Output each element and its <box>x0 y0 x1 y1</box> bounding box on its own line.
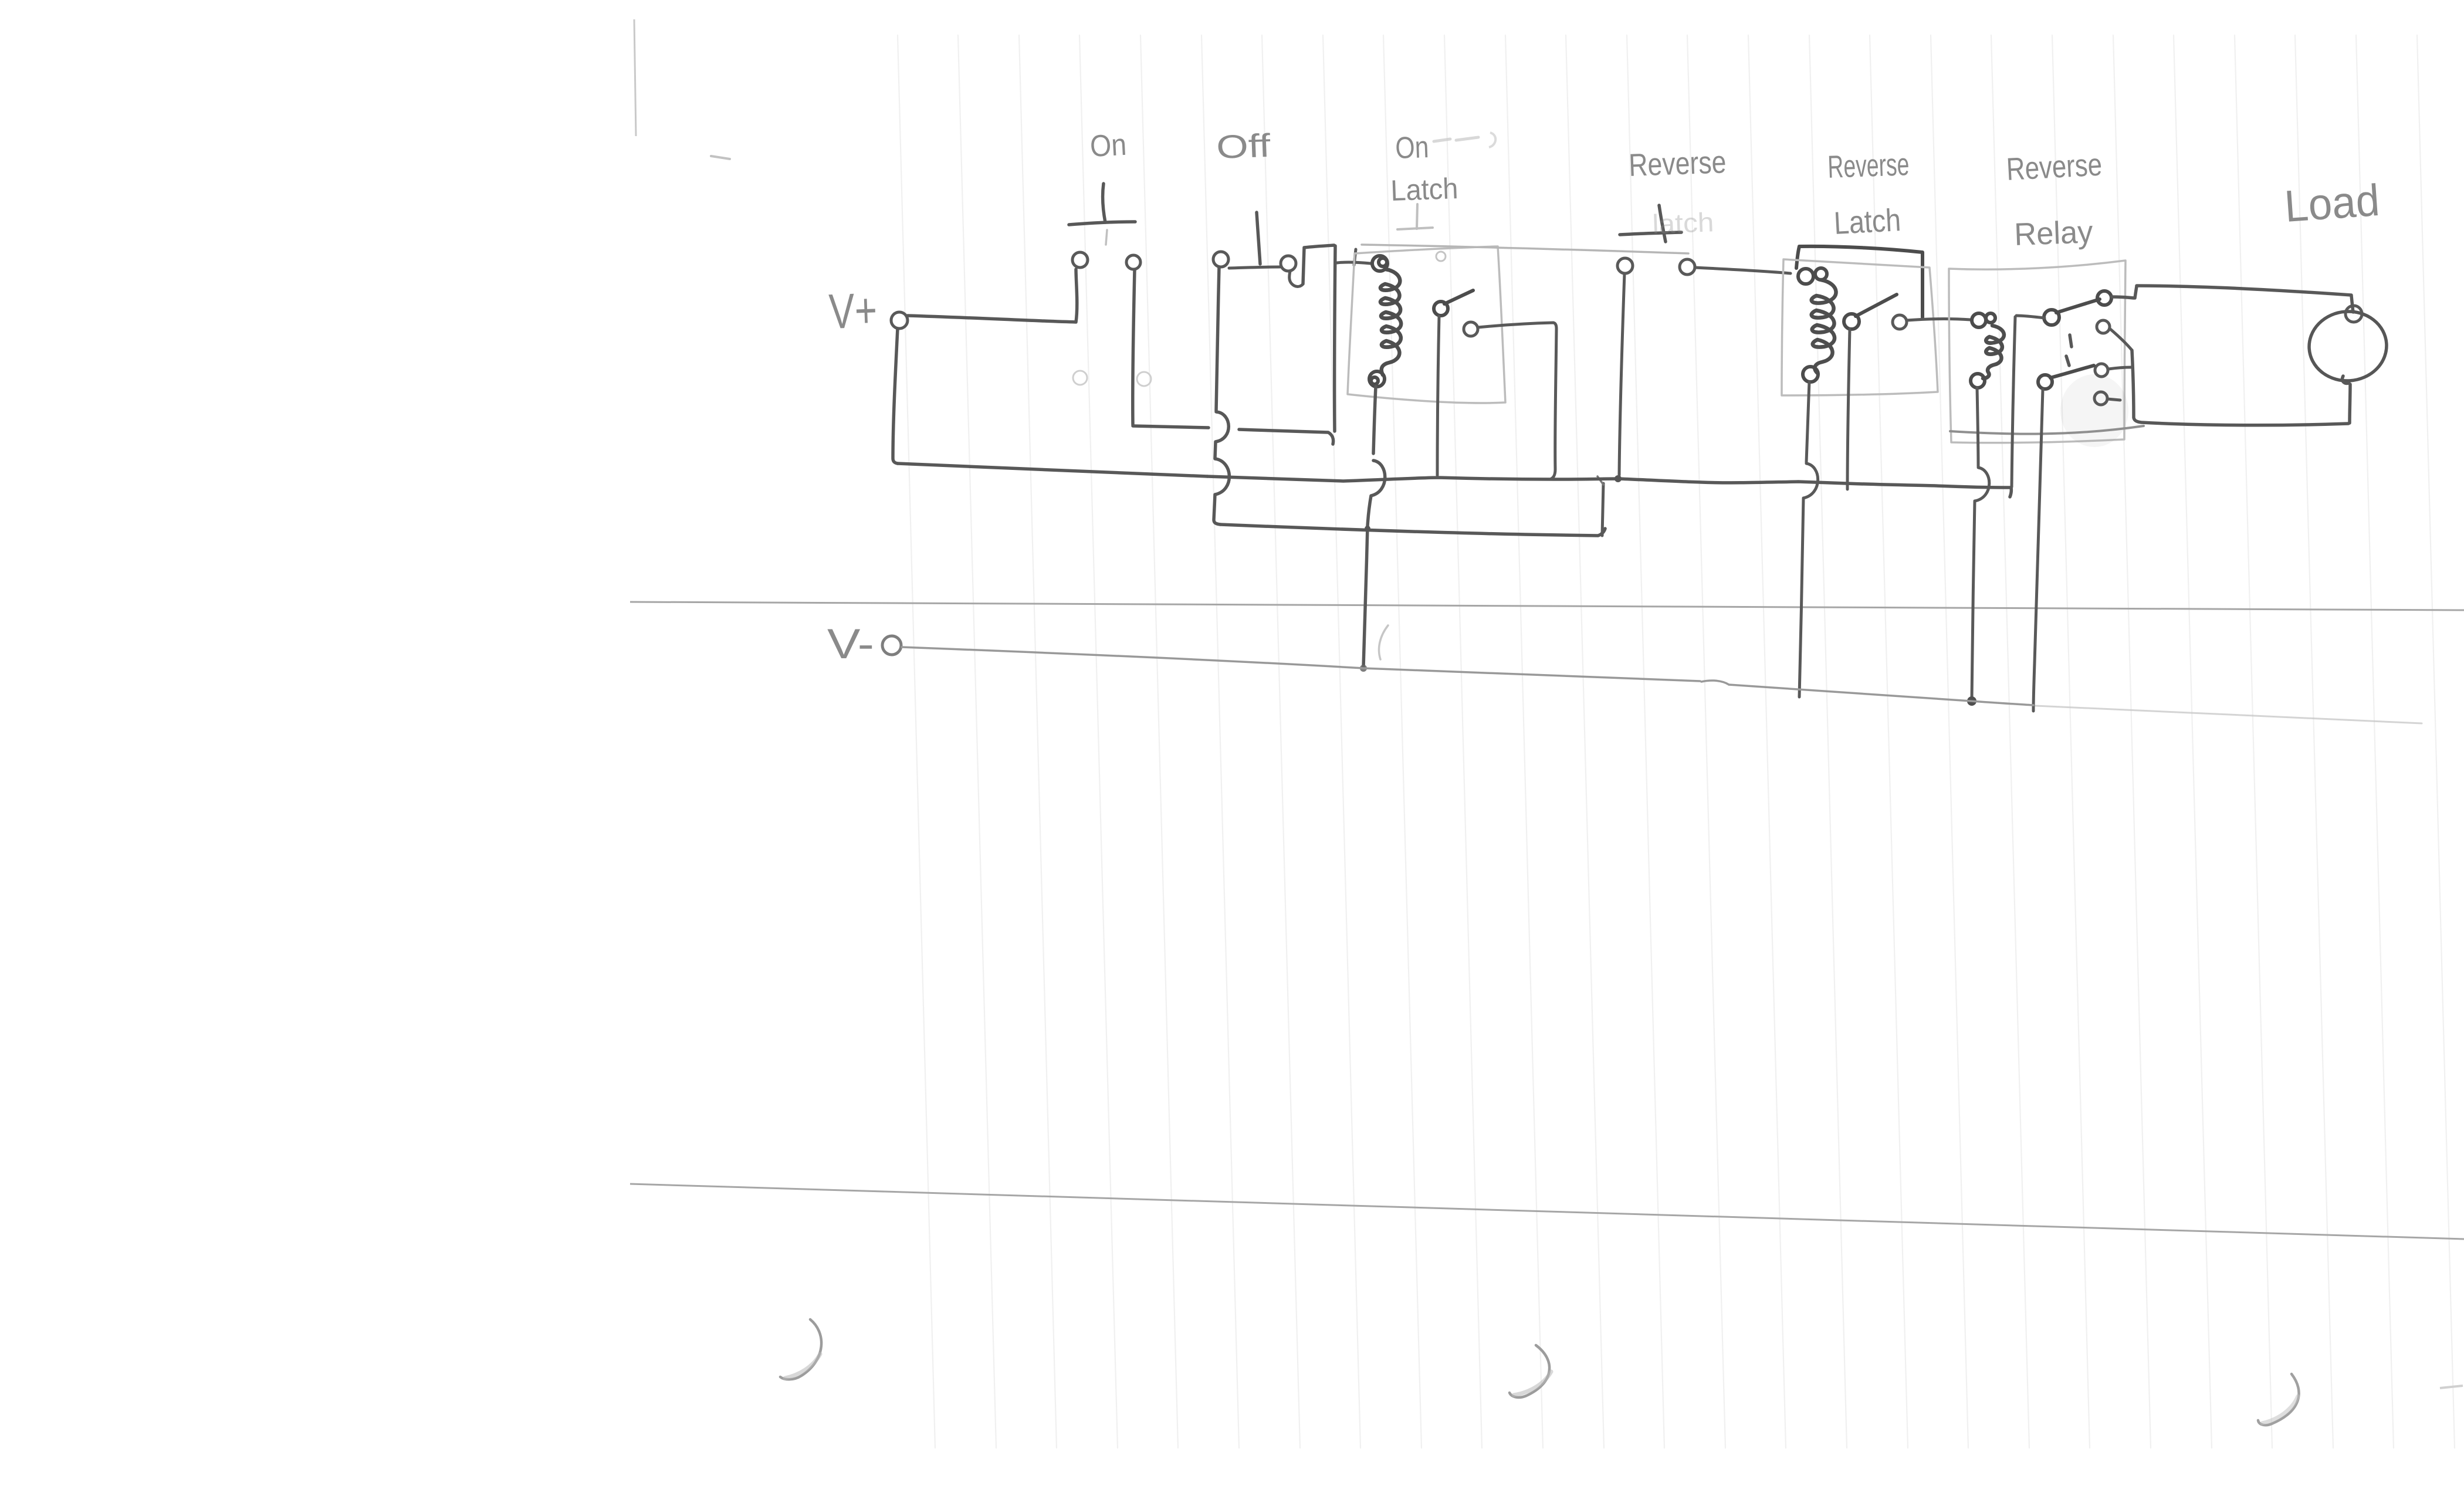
junction dot on V- <box>1967 696 1976 706</box>
relay Reverse Relay: contact NO1 <box>2097 291 2111 305</box>
pushbutton On: actuator bar <box>1069 222 1135 225</box>
svg-text:Reverse: Reverse <box>2005 147 2103 187</box>
relay On Latch: coil bottom terminal <box>1369 371 1385 387</box>
wire NO1 step up to load top wire <box>2111 286 2137 298</box>
wire V- faint tail <box>2036 706 2422 723</box>
eraser smudge <box>2060 374 2128 447</box>
node V- terminal <box>882 636 901 655</box>
erased scribble next to On Latch <box>1434 137 1478 141</box>
page curl mark 3 <box>2258 1374 2299 1425</box>
svg-text:Off: Off <box>1216 127 1271 165</box>
wire hop over line1 <box>1215 412 1228 458</box>
relay Reverse Latch: contact <box>1893 315 1907 329</box>
horizontal rule 2 <box>630 1184 2464 1239</box>
relay Reverse Latch: armature lever <box>1856 295 1897 316</box>
relay Reverse Relay: pole2 pivot <box>2038 375 2052 389</box>
wire load bottom down <box>2350 384 2350 423</box>
relay On Latch: switched contact <box>1464 322 1478 336</box>
wire to On Latch coil top <box>1337 262 1370 263</box>
relay Reverse Relay: coil top terminal <box>1972 313 1986 327</box>
junction at V- <box>1360 665 1367 672</box>
wire line3 Off bottom to V- stub <box>1220 524 1605 536</box>
pushbutton On: right terminal <box>1126 255 1140 269</box>
relay Reverse Relay: coil bottom terminal <box>1971 374 1985 388</box>
wire latch pivot down to rail <box>1847 329 1850 489</box>
wire NC2 stub <box>2107 399 2120 400</box>
wire coil bottom down to V- with hop over line2 <box>1373 387 1376 453</box>
wire into load top <box>2351 296 2353 312</box>
vertical ruled lines <box>898 35 2455 1448</box>
wire contact to reverse feed, down to rail <box>1478 323 1556 479</box>
wire V- long rail <box>902 647 1700 681</box>
pushbutton Reverse: right terminal <box>1680 259 1695 275</box>
relay Reverse Relay: pole2 lever <box>2050 365 2094 378</box>
relay Reverse Relay: pole1 pivot <box>2044 310 2059 325</box>
svg-text:Reverse: Reverse <box>1827 147 1910 185</box>
wire pole1 pivot to rail end <box>2016 316 2045 318</box>
faint dash right edge bottom <box>2440 1386 2463 1388</box>
wire stub from rail down to line3 end <box>1602 483 1603 536</box>
wire latch contact to relay coil <box>1907 319 1971 320</box>
junction rail with reverse switch vertical <box>1615 475 1622 482</box>
wire V- continues <box>1729 685 2033 705</box>
relay Reverse Latch: armature pivot <box>1844 314 1859 329</box>
pushbutton Reverse: actuator stem <box>1659 205 1666 242</box>
wire relay coil bottom to V- with hop over rail <box>1977 388 1978 466</box>
node V+ terminal <box>891 312 908 329</box>
wire V+ terminal down <box>893 329 898 463</box>
load lamp circle <box>2307 309 2389 384</box>
pushbutton On: left terminal <box>1072 252 1088 268</box>
wire cross column down and load bottom <box>2132 350 2348 425</box>
wire Off hump and right-side vertical <box>1303 245 1334 284</box>
ghost terminal circles (erased) under On <box>1073 371 1087 385</box>
medium pencil line joining load bottom wire <box>1950 426 2144 434</box>
wire line2 lower rail (left part) <box>898 463 1207 476</box>
relay Reverse Latch: body outline dark <box>1799 246 1923 317</box>
junction line3 crossing <box>1365 526 1370 532</box>
wire V+ to On switch <box>908 269 1077 322</box>
erased actuator marks under Latch <box>1397 204 1433 229</box>
svg-text:Reverse: Reverse <box>1628 144 1727 183</box>
wire pole2 pivot down to V- <box>2033 390 2043 711</box>
load top terminal <box>2345 306 2362 322</box>
pushbutton Off: terminal tail <box>1289 271 1303 286</box>
svg-text:Latch: Latch <box>1390 172 1458 207</box>
pushbutton Off: left terminal <box>1213 252 1228 267</box>
faint curl artifact <box>1379 625 1388 659</box>
relay Reverse Latch: coil top terminal <box>1798 269 1813 284</box>
pushbutton Off: right terminal <box>1281 256 1296 271</box>
relay Reverse Relay: coil winding <box>1983 326 2004 378</box>
mechanical link dashes <box>2066 335 2072 365</box>
page curl mark 2 <box>1509 1345 1549 1397</box>
relay Reverse Relay: contact NO2 <box>2095 364 2108 377</box>
relay Reverse Relay: body outline light <box>1949 260 2125 443</box>
wire On right terminal down <box>1133 270 1135 425</box>
small tick crossing feed wire <box>1354 249 1356 265</box>
wire line1 On to Off bottom <box>1133 426 1209 428</box>
wire line2 lower rail (right part) <box>1207 476 2011 497</box>
svg-text:V-: V- <box>827 621 874 668</box>
pushbutton On: actuator stem <box>1103 184 1105 222</box>
page curl mark 1 <box>780 1319 821 1379</box>
relay On Latch: armature lever <box>1444 290 1473 304</box>
paper left edge <box>634 19 636 136</box>
pushbutton Reverse: left terminal <box>1617 258 1633 273</box>
light construction line along tops <box>1362 245 1688 253</box>
relay Reverse Latch: body outline light <box>1782 259 1938 395</box>
faint stem remnant below On bar <box>1106 230 1107 245</box>
relay On Latch: coil winding <box>1380 269 1401 375</box>
wire hop over line2 <box>1214 459 1229 524</box>
svg-text:Latch: Latch <box>1833 202 1901 241</box>
pushbutton Reverse: actuator bar <box>1620 232 1681 235</box>
horizontal rule 1 <box>630 602 2464 610</box>
stray pencil dash top-left <box>711 156 730 159</box>
svg-text:On: On <box>1089 128 1128 164</box>
wire pivot down to rail <box>1437 316 1439 475</box>
svg-text:V+: V+ <box>828 282 878 339</box>
pushbutton Off: actuator stem <box>1257 212 1260 264</box>
relay Reverse Relay: pole1 lever <box>2056 299 2100 313</box>
relay Reverse Relay: contact NC1 <box>2097 320 2110 333</box>
wire Reverse left terminal down to rail <box>1619 273 1624 475</box>
wire NC1 to cross column <box>2110 329 2132 350</box>
wire V- kink <box>1701 681 1729 685</box>
wire Off left terminal down with hops <box>1216 267 1219 411</box>
relay On Latch: coil top terminal <box>1372 256 1387 271</box>
svg-text:latch: latch <box>1652 207 1715 239</box>
relay On Latch: sketched body outline (light) <box>1348 246 1505 403</box>
relay On Latch: armature pivot <box>1434 302 1448 316</box>
svg-text:Load: Load <box>2283 175 2381 232</box>
wire Reverse right terminal to latch coil <box>1695 268 1791 273</box>
svg-text:On: On <box>1395 130 1429 165</box>
svg-text:Relay: Relay <box>2013 214 2093 252</box>
pushbutton Off: top wire <box>1229 267 1280 268</box>
relay Reverse Latch: coil bottom terminal <box>1803 367 1818 382</box>
relay Reverse Relay: contact NC2 <box>2094 392 2107 405</box>
wire latch coil bottom down to V- with hop <box>1806 382 1809 462</box>
load bottom hook <box>2343 376 2349 383</box>
relay Reverse Latch: coil winding <box>1812 280 1836 373</box>
wire NO2 stub to column <box>2108 367 2131 369</box>
wire load top <box>2137 286 2351 295</box>
